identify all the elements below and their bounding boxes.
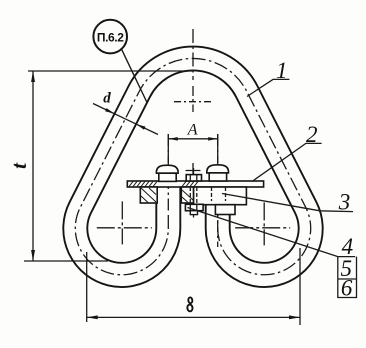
dimension A line	[168, 138, 217, 140]
bolt 1 collar	[159, 173, 176, 181]
node: right bolt axis	[217, 134, 219, 247]
dimension t extension line bottom	[24, 260, 108, 262]
svg-text:2: 2	[306, 122, 318, 147]
item 4 leader	[188, 208, 356, 257]
svg-text:6: 6	[341, 276, 353, 301]
item 1 leader	[247, 79, 289, 96]
bolt 2 dome head (right)	[207, 165, 229, 173]
middle bolt tip	[190, 211, 197, 215]
label B	[186, 297, 193, 311]
dimension A extension lines	[168, 134, 217, 163]
item 3 leader	[222, 194, 353, 212]
dimension B extension lines	[87, 248, 300, 325]
wire: link inner contour	[87, 70, 298, 262]
dimension B line	[87, 316, 300, 318]
plate item 2: top strip	[127, 181, 263, 187]
middle bolt bottom nut item 5	[185, 204, 203, 210]
node: apex vertical centreline	[192, 29, 194, 80]
dimension t line	[32, 71, 34, 261]
items 5 and 6 boxes	[338, 257, 357, 298]
node: right loop centre cross	[235, 202, 290, 245]
balloon leader	[122, 49, 148, 102]
bolt 2 collar	[209, 173, 226, 181]
node: left bolt axis	[167, 134, 169, 214]
balloon П.6.2 circle	[93, 20, 127, 54]
svg-text:П.6.2: П.6.2	[97, 31, 124, 45]
svg-text:A: A	[187, 122, 198, 139]
middle bolt top nut item 4	[186, 175, 201, 181]
bolt 1 dome head (left)	[156, 165, 178, 173]
clamp jaw left (section)	[140, 187, 157, 203]
node: middle bolt axis	[193, 168, 195, 218]
label d leader	[93, 104, 158, 135]
svg-text:d: d	[103, 91, 111, 107]
clamp jaw middle (section)	[181, 187, 193, 203]
item 2 leader	[252, 143, 322, 181]
node: apex arc centre tick	[174, 101, 212, 103]
wire: link outer contour	[63, 47, 322, 287]
lug under clamp body	[215, 205, 235, 215]
node: centre cross between bolts	[186, 163, 201, 178]
svg-text:3: 3	[338, 189, 351, 214]
hidden bolt shank lines	[190, 187, 197, 204]
clamp body item 3: right block	[194, 187, 247, 205]
svg-text:1: 1	[276, 58, 288, 83]
node: left loop centre cross	[97, 201, 152, 244]
hatching on strip centre part	[182, 181, 186, 186]
dimension t extension line top	[28, 70, 193, 72]
wire: rod centreline dash-dot	[75, 58, 310, 274]
hatching on strip left end	[129, 181, 133, 186]
hidden bolt 2 shank in block	[212, 187, 226, 201]
